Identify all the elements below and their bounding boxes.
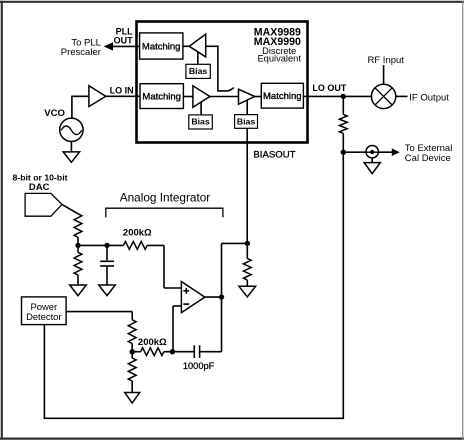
svg-text:RF Input: RF Input [368, 55, 405, 66]
svg-text:Analog Integrator: Analog Integrator [120, 191, 211, 205]
svg-text:Equivalent: Equivalent [257, 54, 301, 64]
svg-text:200kΩ: 200kΩ [123, 227, 152, 238]
svg-text:200kΩ: 200kΩ [138, 337, 167, 348]
svg-text:VCO: VCO [44, 108, 65, 119]
svg-text:OUT: OUT [114, 35, 134, 45]
svg-text:Bias: Bias [237, 116, 256, 126]
svg-text:Bias: Bias [189, 66, 208, 76]
svg-text:DAC: DAC [29, 182, 50, 193]
svg-text:1000pF: 1000pF [183, 361, 215, 371]
svg-text:BIASOUT: BIASOUT [253, 150, 295, 161]
svg-text:Cal Device: Cal Device [405, 153, 451, 164]
svg-text:Detector: Detector [26, 311, 61, 322]
svg-text:Matching: Matching [142, 41, 181, 52]
svg-text:Matching: Matching [263, 91, 302, 102]
svg-text:LO IN: LO IN [110, 86, 134, 96]
svg-text:Matching: Matching [142, 92, 181, 103]
svg-text:LO OUT: LO OUT [312, 83, 346, 93]
svg-text:Prescaler: Prescaler [61, 47, 101, 58]
svg-text:Bias: Bias [191, 117, 210, 127]
svg-text:IF Output: IF Output [409, 92, 449, 103]
